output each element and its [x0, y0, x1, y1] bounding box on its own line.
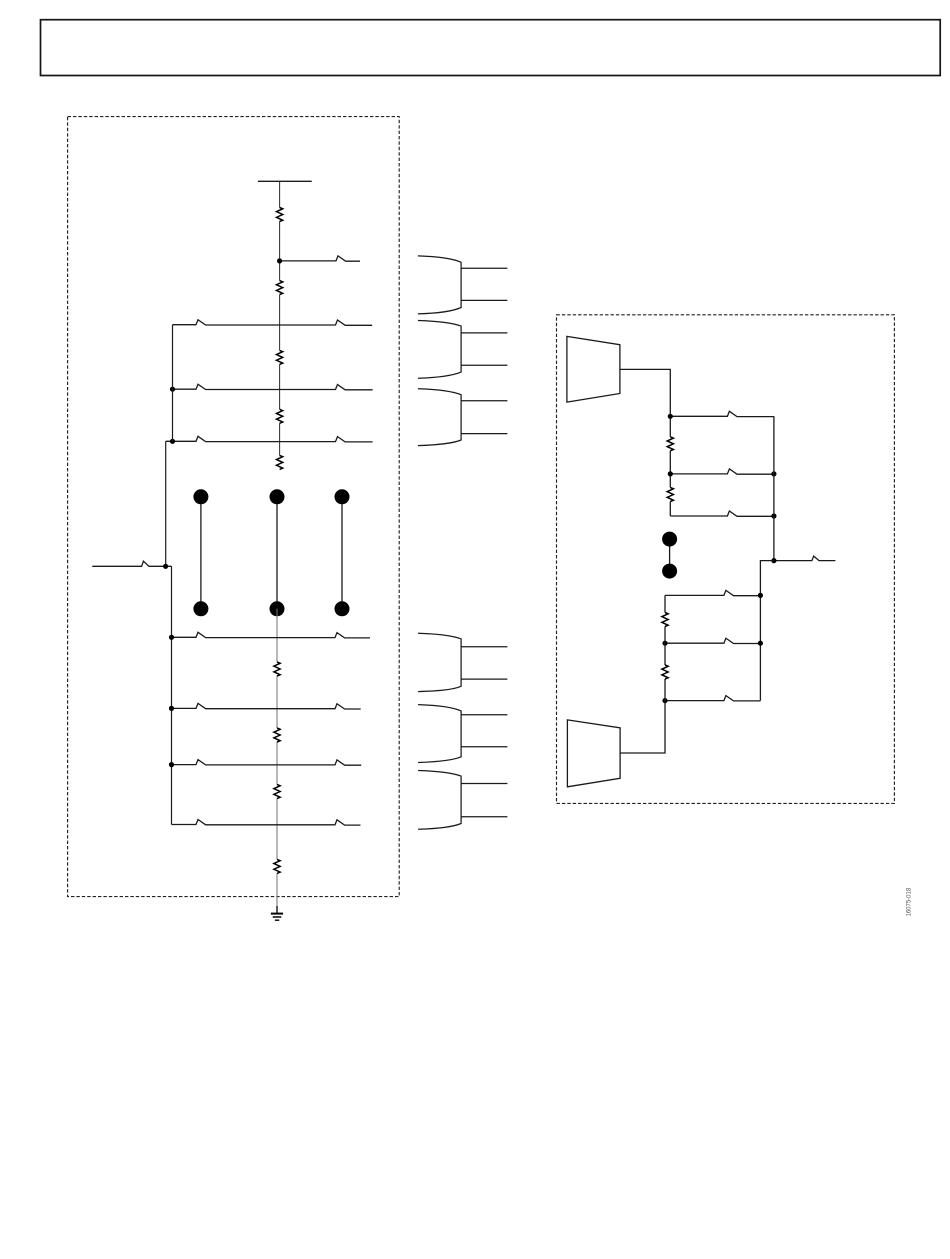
wire brace B5 stub bottom	[461, 746, 507, 748]
wire brace B5 stub top	[461, 714, 507, 716]
node dot	[758, 641, 763, 646]
connector brace B2	[418, 321, 461, 379]
resistor R3	[277, 350, 283, 364]
svg-text:16075-018: 16075-018	[907, 887, 913, 916]
ground	[271, 914, 283, 921]
right bus wire jog and lower bus	[760, 561, 774, 701]
input wire with switch S_IN	[92, 561, 171, 566]
wire row with switch S15	[665, 696, 760, 701]
wire A1 output to ladder	[620, 369, 670, 516]
wire brace B4 stub bottom	[461, 678, 507, 680]
node dot row1 tap	[277, 258, 282, 263]
wire row 4 with switches S4a S4b	[166, 436, 373, 442]
resistor R4	[277, 409, 283, 423]
resistor R10	[667, 437, 673, 451]
node dot	[668, 414, 673, 419]
wire row A with switches SAa SAb	[172, 632, 371, 638]
node dot	[771, 471, 776, 476]
node dot	[668, 471, 673, 476]
connector brace B5	[418, 705, 461, 763]
wire row D with switches SDa SDb	[172, 820, 361, 826]
resistor R1	[277, 208, 283, 222]
right bus wire upper	[773, 416, 775, 560]
connector brace B3	[418, 389, 461, 446]
wire ground stub	[276, 906, 278, 913]
wire row 1 with switch S1	[280, 256, 360, 261]
figure caption box	[41, 20, 941, 76]
resistor R5	[277, 455, 283, 469]
wire row B with switches SBa SBb	[172, 703, 361, 709]
node dot row3	[170, 387, 175, 392]
resistor chain wire (bottom half)	[276, 609, 278, 914]
wire row C with switches SCa SCb	[172, 760, 362, 766]
wire row 2 with switches S2a S2b	[173, 320, 373, 326]
wire A2 output to ladder	[620, 595, 665, 753]
resistor R7	[274, 728, 280, 742]
op-amp A2 (bottom buffer)	[567, 720, 620, 787]
continuation ellipsis bar middle	[270, 489, 285, 616]
connector brace B6	[418, 771, 461, 830]
node dot input junction	[163, 564, 168, 569]
resistor R13	[662, 665, 668, 679]
node dot row4	[170, 439, 175, 444]
wire row with switch S11	[670, 469, 774, 474]
wire row 3 with switches S3a S3b	[173, 384, 373, 390]
left bus wire upper	[172, 325, 174, 442]
dashed box: resistor ladder network	[68, 117, 400, 897]
connector brace B1	[418, 256, 461, 314]
resistor R12	[662, 613, 668, 627]
node dot	[662, 698, 667, 703]
resistor R2	[277, 281, 283, 295]
resistor chain wire (top half)	[279, 182, 281, 456]
wire brace B6 stub bottom	[461, 816, 507, 818]
wire brace B2 stub top	[461, 332, 507, 334]
top terminal rail	[258, 180, 312, 182]
node dot	[771, 513, 776, 518]
wire row with switch S10	[670, 411, 774, 416]
wire row with switch S13	[665, 590, 760, 595]
wire brace B3 stub top	[461, 400, 507, 402]
node dot	[662, 641, 667, 646]
node dot rowB	[169, 706, 174, 711]
connector brace B4	[418, 633, 461, 691]
resistor R9	[274, 859, 280, 873]
node dot rowC	[169, 762, 174, 767]
node dot	[758, 593, 763, 598]
left bus wire lower	[171, 566, 173, 824]
node dot output junction	[771, 558, 776, 563]
node dot rowA	[169, 635, 174, 640]
continuation ellipsis bar left	[193, 489, 208, 616]
op-amp A1 (top buffer)	[567, 336, 620, 402]
output wire with switch S_OUT	[774, 556, 836, 561]
resistor R11	[667, 488, 673, 502]
wire brace B3 stub bottom	[461, 433, 507, 435]
wire brace B4 stub top	[461, 646, 507, 648]
wire row with switch S14	[665, 638, 760, 643]
continuation ellipsis bar right	[335, 489, 350, 616]
wire row with switch S12	[670, 511, 774, 516]
continuation ellipsis dots	[662, 532, 677, 579]
resistor R6	[274, 662, 280, 676]
wire brace B1 stub top	[461, 267, 507, 269]
wire brace B2 stub bottom	[461, 364, 507, 366]
dashed box: amplifier stage	[557, 315, 895, 804]
wire brace B6 stub top	[461, 783, 507, 785]
wire brace B1 stub bottom	[461, 299, 507, 301]
left bus wire jog	[165, 441, 167, 566]
resistor R8	[274, 785, 280, 799]
